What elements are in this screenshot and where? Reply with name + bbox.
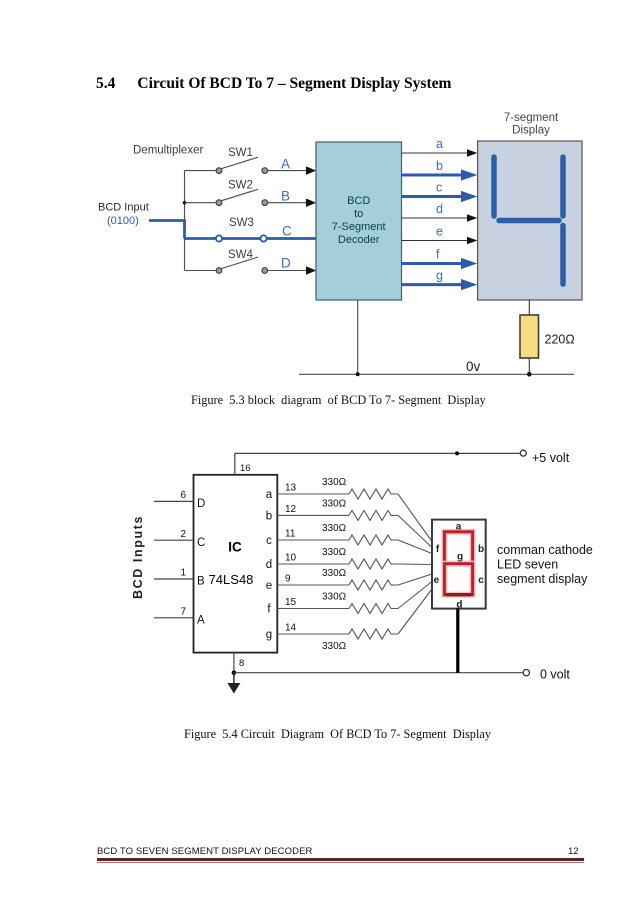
pin e + resistor R-e 330 ohm bbox=[277, 584, 349, 586]
svg-text:330Ω: 330Ω bbox=[322, 477, 347, 488]
svg-text:BCD Inputs: BCD Inputs bbox=[131, 515, 145, 599]
display DS2 common cathode LED bbox=[432, 520, 486, 609]
svg-text:0 volt: 0 volt bbox=[540, 668, 570, 682]
figure 5.3 block diagram bbox=[90, 105, 590, 385]
pin 8 GND bbox=[233, 653, 235, 673]
svg-text:e: e bbox=[434, 575, 440, 586]
pin c + resistor R-c 330 ohm bbox=[277, 539, 349, 541]
caption figure 5.3 bbox=[191, 393, 486, 408]
resistor 220 ohm bbox=[520, 315, 539, 358]
svg-text:7: 7 bbox=[180, 606, 186, 617]
svg-text:7-Segment: 7-Segment bbox=[332, 221, 386, 233]
svg-text:c: c bbox=[478, 575, 484, 586]
segment f lit bbox=[491, 157, 497, 216]
wire resistor to rail bbox=[528, 358, 530, 374]
svg-text:D: D bbox=[281, 256, 291, 271]
switch SW3 (closed, active) bbox=[185, 237, 388, 240]
decoder U1 BCD to 7-Segment Decoder bbox=[316, 142, 402, 300]
pin A input bbox=[154, 617, 194, 619]
svg-text:g: g bbox=[436, 269, 443, 283]
svg-text:d: d bbox=[436, 202, 443, 216]
svg-text:6: 6 bbox=[180, 490, 186, 501]
svg-text:14: 14 bbox=[285, 623, 297, 634]
wire display to resistor bbox=[528, 300, 530, 315]
ground symbol bbox=[233, 673, 235, 683]
segment b lit bbox=[560, 157, 566, 216]
wire f output (active) bbox=[402, 262, 462, 265]
wire d output bbox=[402, 217, 468, 219]
svg-text:330Ω: 330Ω bbox=[322, 498, 347, 509]
wire +5V rail bbox=[235, 452, 520, 454]
svg-text:SW2: SW2 bbox=[228, 180, 253, 192]
svg-text:10: 10 bbox=[285, 553, 297, 564]
segment c lit bbox=[560, 226, 566, 285]
svg-text:74LS48: 74LS48 bbox=[209, 572, 254, 587]
svg-text:B: B bbox=[281, 189, 290, 204]
wire B arrow bbox=[306, 199, 316, 207]
svg-text:IC: IC bbox=[228, 540, 242, 555]
svg-text:to: to bbox=[354, 208, 363, 220]
svg-text:Decoder: Decoder bbox=[338, 234, 380, 246]
svg-text:f: f bbox=[436, 248, 440, 262]
svg-text:8: 8 bbox=[239, 658, 244, 669]
segment g lit bbox=[499, 218, 559, 224]
wire c output (active) bbox=[402, 195, 462, 198]
pin D input bbox=[154, 500, 194, 502]
footer text bbox=[97, 846, 312, 857]
svg-text:Display: Display bbox=[512, 125, 550, 137]
pin b + resistor R-b 330 ohm bbox=[277, 514, 349, 516]
svg-text:12: 12 bbox=[285, 504, 297, 515]
svg-text:comman cathode: comman cathode bbox=[497, 543, 593, 557]
wire A arrow bbox=[306, 166, 316, 174]
pin 16 Vcc bbox=[234, 453, 236, 474]
svg-text:Demultiplexer: Demultiplexer bbox=[133, 145, 203, 157]
svg-text:7-segment: 7-segment bbox=[504, 112, 559, 124]
wire b output (active) bbox=[402, 174, 462, 177]
svg-text:SW4: SW4 bbox=[228, 249, 254, 261]
svg-text:g: g bbox=[266, 629, 272, 641]
svg-text:LED seven: LED seven bbox=[497, 558, 558, 572]
svg-text:0v: 0v bbox=[466, 359, 481, 374]
pin d + resistor R-d 330 ohm bbox=[277, 563, 349, 565]
svg-text:B: B bbox=[197, 576, 205, 588]
wire g output (active) bbox=[402, 283, 462, 286]
wire D arrow bbox=[306, 266, 316, 274]
wire e output bbox=[402, 240, 468, 242]
footer rule thin bbox=[97, 862, 584, 863]
svg-text:15: 15 bbox=[285, 597, 297, 608]
terminal 0 volt bbox=[523, 670, 529, 676]
node resistor-rail bbox=[527, 372, 532, 377]
IC U2 74LS48 box bbox=[194, 475, 278, 653]
svg-text:330Ω: 330Ω bbox=[322, 523, 347, 534]
pin C input bbox=[154, 539, 194, 541]
caption figure 5.4 bbox=[184, 727, 491, 742]
wire C arrow (blue) bbox=[386, 232, 403, 245]
svg-text:A: A bbox=[281, 157, 290, 172]
section heading 5.4 bbox=[96, 75, 451, 93]
svg-text:330Ω: 330Ω bbox=[322, 568, 347, 579]
svg-text:9: 9 bbox=[285, 574, 291, 585]
svg-text:A: A bbox=[197, 614, 205, 626]
segments upper (a f b g) bbox=[444, 532, 472, 564]
svg-text:13: 13 bbox=[285, 483, 297, 494]
pin B input bbox=[154, 578, 194, 580]
node on +5V rail bbox=[455, 451, 459, 455]
svg-text:a: a bbox=[436, 137, 443, 151]
wire cathode bbox=[456, 609, 459, 673]
display DS1 7-segment bbox=[478, 141, 582, 300]
svg-text:e: e bbox=[266, 580, 272, 592]
svg-text:220Ω: 220Ω bbox=[545, 333, 575, 347]
svg-text:b: b bbox=[478, 544, 484, 555]
switch SW1 bbox=[185, 157, 307, 170]
svg-text:b: b bbox=[266, 510, 272, 522]
svg-text:330Ω: 330Ω bbox=[322, 592, 347, 603]
svg-text:d: d bbox=[266, 559, 272, 571]
node pin8-rail bbox=[232, 670, 237, 675]
wire bus vertical bbox=[184, 171, 186, 271]
svg-text:g: g bbox=[457, 552, 463, 563]
svg-text:D: D bbox=[197, 498, 205, 510]
node decoder-rail bbox=[356, 372, 360, 376]
svg-text:c: c bbox=[436, 181, 442, 195]
svg-text:b: b bbox=[436, 159, 443, 173]
pin f + resistor R-f 330 ohm bbox=[277, 608, 349, 610]
svg-text:C: C bbox=[282, 224, 292, 239]
svg-text:1: 1 bbox=[180, 568, 186, 579]
svg-text:16: 16 bbox=[240, 463, 251, 474]
pin g + resistor R-g 330 ohm bbox=[277, 633, 349, 635]
svg-text:BCD: BCD bbox=[347, 195, 370, 207]
footer rule thick bbox=[97, 858, 584, 861]
wire a output bbox=[402, 152, 468, 154]
svg-text:a: a bbox=[266, 489, 273, 501]
switch SW4 bbox=[185, 257, 307, 270]
terminal +5 volt bbox=[520, 450, 526, 456]
svg-text:SW1: SW1 bbox=[228, 147, 253, 159]
wire 0V rail bbox=[234, 672, 523, 674]
svg-text:2: 2 bbox=[180, 529, 186, 540]
svg-text:C: C bbox=[197, 537, 205, 549]
svg-text:BCD Input: BCD Input bbox=[98, 202, 149, 214]
switch SW2 bbox=[185, 189, 307, 202]
svg-text:e: e bbox=[436, 225, 443, 239]
svg-text:11: 11 bbox=[285, 529, 296, 540]
segment d dark edge bbox=[446, 593, 472, 596]
svg-text:segment display: segment display bbox=[497, 572, 588, 586]
wire decoder to rail bbox=[357, 300, 359, 374]
svg-text:a: a bbox=[456, 522, 462, 533]
svg-text:c: c bbox=[266, 535, 272, 547]
svg-text:(0100): (0100) bbox=[107, 215, 139, 227]
figure 5.4 circuit diagram bbox=[130, 445, 605, 707]
wire BCD input (blue) bbox=[149, 221, 185, 239]
svg-text:+5 volt: +5 volt bbox=[532, 451, 570, 465]
segments lower (e c d) bbox=[444, 564, 472, 595]
pin a + resistor R-a 330 ohm bbox=[277, 493, 349, 495]
wire ground rail 0v bbox=[299, 373, 574, 375]
svg-text:330Ω: 330Ω bbox=[322, 641, 347, 652]
footer page number 12 bbox=[568, 846, 579, 857]
svg-text:330Ω: 330Ω bbox=[322, 547, 347, 558]
svg-text:SW3: SW3 bbox=[229, 217, 254, 229]
node junction on bus bbox=[183, 201, 187, 205]
